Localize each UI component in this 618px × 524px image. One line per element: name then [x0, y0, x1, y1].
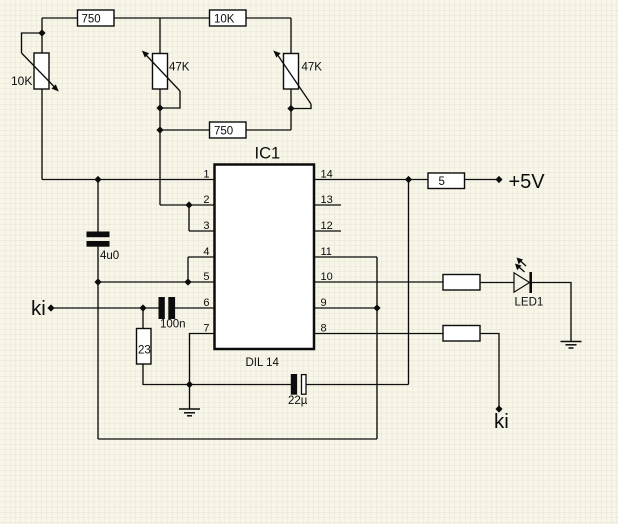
wire pin4 — [188, 256, 214, 258]
junction pin1/C4 — [94, 176, 101, 183]
junction pin5/C4 — [94, 278, 101, 285]
junction pin9 bus — [373, 304, 380, 311]
wire P3 bottom down — [290, 89, 292, 130]
svg-text:4u0: 4u0 — [100, 250, 119, 262]
junction pin5 link — [184, 278, 191, 285]
junction P2 wiper — [156, 104, 163, 111]
LED1 — [514, 272, 543, 309]
potentiometer 10K P1 — [11, 53, 59, 92]
wire P1 bottom down — [41, 89, 43, 180]
svg-text:750: 750 — [82, 14, 101, 26]
svg-text:2: 2 — [203, 194, 209, 206]
wire bottom loop horizontal — [98, 438, 377, 440]
svg-text:5: 5 — [203, 271, 209, 283]
potentiometer 47K P3 — [273, 51, 322, 105]
svg-text:10: 10 — [321, 271, 333, 283]
wire drop to pot P1 top — [41, 18, 43, 54]
wire pin5 row — [98, 281, 214, 283]
wire pin3 — [189, 230, 214, 232]
wire +5V bus vertical — [408, 180, 410, 385]
wire mid 750 row right — [246, 129, 292, 131]
capacitor 100n — [159, 297, 186, 331]
resistor unlabeled R5 (pin10) — [443, 275, 480, 291]
wire pin2 branch — [160, 204, 214, 206]
wire P2 wiper bend — [160, 91, 180, 108]
svg-text:IC1: IC1 — [255, 145, 281, 163]
svg-text:6: 6 — [203, 297, 209, 309]
wire pin11 — [315, 256, 377, 258]
svg-text:7: 7 — [203, 323, 209, 335]
svg-text:ki: ki — [494, 410, 509, 433]
capacitor 22u polarized — [288, 374, 308, 407]
svg-text:14: 14 — [321, 169, 333, 181]
wire top row right of 10K — [246, 17, 292, 19]
svg-text:1: 1 — [203, 169, 209, 181]
svg-text:12: 12 — [321, 220, 333, 232]
wire R to bottom ki — [480, 334, 499, 410]
svg-text:LED1: LED1 — [515, 297, 544, 309]
wire 5 box to +5V terminal — [465, 179, 500, 181]
svg-text:4: 4 — [203, 246, 209, 258]
resistor unlabeled R6 (pin8) — [443, 326, 480, 342]
svg-text:47K: 47K — [169, 62, 190, 74]
junction +5V bus — [405, 176, 412, 183]
wire pin7 bend down — [190, 334, 215, 385]
wire node C4 top — [97, 180, 99, 232]
terminal +5V — [495, 176, 502, 183]
terminal ki bottom — [495, 405, 502, 412]
wire R to LED — [480, 282, 514, 284]
wire pin9 — [315, 307, 377, 309]
wire to 22u left — [190, 384, 292, 386]
wire pin12 stub — [315, 230, 341, 232]
junction R23 top — [139, 304, 146, 311]
wire bottom loop vertical up to pin11 — [376, 257, 378, 439]
svg-text:11: 11 — [321, 246, 332, 258]
svg-text:3: 3 — [203, 220, 209, 232]
wire pin2-pin3 link — [188, 205, 190, 231]
junction mid750 row — [156, 126, 163, 133]
svg-text:DIL 14: DIL 14 — [246, 357, 280, 369]
svg-text:8: 8 — [321, 323, 327, 335]
wire 100n to pin6 — [175, 307, 214, 309]
wire P3 wiper bend — [291, 104, 311, 109]
wire pin8 row to R — [315, 333, 443, 335]
svg-text:+5V: +5V — [509, 171, 546, 193]
wire pin10 row to R — [315, 281, 443, 283]
wire pin1 row — [42, 179, 214, 181]
junction pin2 link — [185, 201, 192, 208]
LED1 emission arrows — [519, 261, 527, 273]
capacitor 4u0 — [87, 232, 120, 263]
terminal ki left — [47, 304, 54, 311]
ground gnd1 (middle) — [179, 409, 200, 416]
wire drop middle branch to pot P2 top — [159, 18, 161, 54]
junction dots (diamonds) — [38, 29, 502, 412]
ground gnd2 (LED) — [561, 342, 582, 349]
wire R23 top — [142, 308, 144, 329]
svg-text:10K: 10K — [11, 74, 32, 88]
resistor 10K (top) — [210, 10, 247, 26]
wire P1 wiper bend — [22, 33, 43, 53]
junction gnd1 node — [186, 381, 193, 388]
wire mid 750 row left — [160, 129, 210, 131]
potentiometer 47K P2 — [142, 51, 190, 92]
svg-text:750: 750 — [214, 126, 233, 138]
wire top row left to resistor 750 — [42, 17, 78, 19]
resistor 5 — [428, 173, 465, 189]
junction P3 wiper — [287, 105, 294, 112]
svg-text:10K: 10K — [214, 14, 235, 26]
wire R23 bottom — [143, 364, 190, 385]
wire LED to gnd2 — [532, 283, 572, 342]
resistor 750 (middle) — [210, 122, 247, 138]
svg-text:13: 13 — [321, 194, 333, 206]
wire drop to pot P3 top — [290, 18, 292, 54]
wire pin14 row — [315, 179, 428, 181]
wire 22u right to +5V bus — [307, 384, 409, 386]
wire ki input row to 100n — [51, 307, 159, 309]
junction P1 wiper — [38, 29, 45, 36]
svg-text:5: 5 — [439, 176, 445, 188]
wire pin4-pin5 link — [187, 257, 189, 282]
svg-text:23: 23 — [138, 345, 151, 357]
svg-text:9: 9 — [321, 297, 327, 309]
wire top row between 750 and 10K — [114, 17, 210, 19]
svg-text:22µ: 22µ — [288, 395, 308, 407]
wire pin13 stub — [315, 204, 341, 206]
wire P2 bottom down to mid row — [159, 89, 161, 205]
svg-text:100n: 100n — [160, 319, 186, 331]
resistor 750 (top) — [78, 10, 115, 26]
svg-text:47K: 47K — [302, 62, 323, 74]
IC1 DIL14 body — [215, 145, 315, 370]
resistor 23 — [137, 329, 152, 365]
wire node C4 bottom long drop — [97, 247, 99, 440]
wire gnd1 drop — [189, 385, 191, 410]
svg-text:ki: ki — [31, 297, 46, 320]
